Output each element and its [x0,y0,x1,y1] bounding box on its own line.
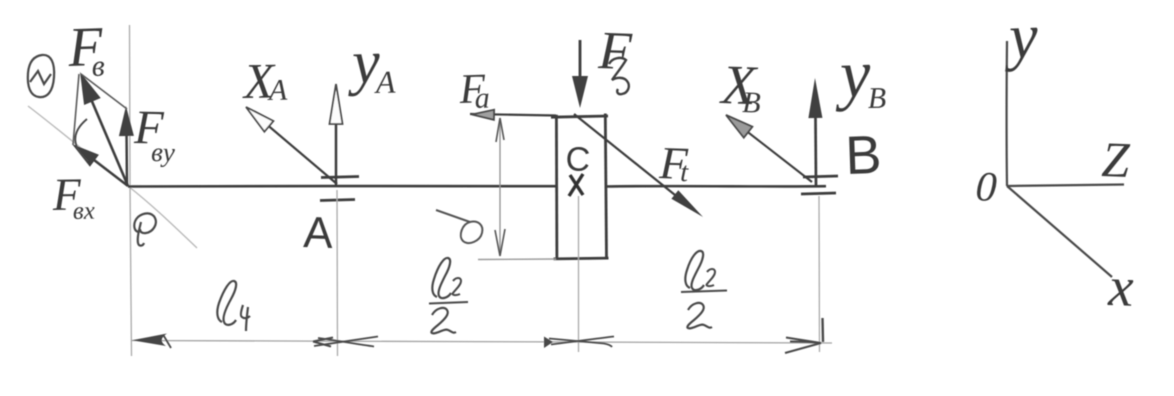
label F_bx [52,179,81,210]
label F_r [598,33,633,70]
parallelogram side (F_b tip to F_by tip) [81,74,127,109]
reaction X_B [740,126,812,182]
diameter dim up arrow [496,118,504,142]
dim arrows at C (bowtie) [544,337,553,349]
label X_B [719,66,758,104]
extension line below A [336,190,339,356]
axis y [1006,41,1009,186]
bearing A upper tick [321,177,359,178]
label y axis [1004,28,1039,72]
label d (rotated) [436,210,482,243]
reaction Y_A [335,122,338,186]
construction line through D (x-direction) [28,106,197,248]
label A [303,217,333,248]
bearing B upper tick [803,176,838,177]
label x axis [1107,279,1133,306]
extension hook above dim line B [821,318,824,342]
dimension foot line [478,258,556,261]
parallelogram side (F_b tip to F_bx tip) [73,74,79,145]
gear outline [551,116,608,117]
axis z [1007,185,1124,187]
label C [567,146,590,171]
bearing A lower tick [320,200,355,201]
label l4 [217,281,236,325]
label l2/2 right [685,251,704,290]
label Z axis [1102,143,1131,177]
label X_A [242,65,276,98]
reaction Y_B [814,118,817,186]
force F_b [88,92,128,186]
label F_a [459,75,486,103]
force F_a [470,114,556,116]
dimension line [131,341,832,344]
angle label phi [134,213,156,245]
center mark x [569,174,583,196]
force F_by [125,130,128,186]
label F_by [134,112,165,144]
diameter dim down arrow [495,229,505,256]
label Y_B [834,65,871,112]
shaft line (gear to B) [605,185,826,188]
angle label theta [28,55,54,97]
label 0 origin [977,172,997,201]
axis x [1007,186,1112,277]
extension line through D [130,25,132,356]
dim arrows at A (bowtie) [313,338,333,347]
force F_t [574,114,680,199]
angle arc at D [75,119,88,161]
extension line below B [818,196,821,352]
dim arrow at B (points right) [785,338,821,354]
force F_bx [94,160,128,186]
label F_t [659,148,689,179]
label l2/2 left [432,258,451,298]
shaft line (D to gear) [128,185,556,188]
dim arrow at D (points left) [132,334,167,347]
gear center line [578,196,580,352]
diameter dimension line [499,118,501,256]
bearing B lower tick [801,193,836,194]
label Y_A [347,54,381,97]
label B [849,136,879,174]
label F_b [67,28,103,66]
force F_r [579,40,582,80]
reaction X_A [258,117,337,184]
